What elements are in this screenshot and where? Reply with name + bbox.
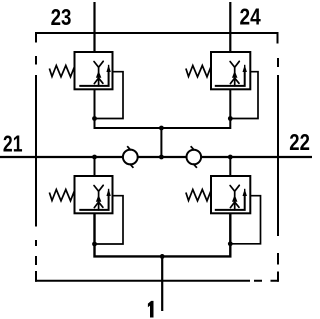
wire bottom-right valve inlet [229,157,231,186]
spring of valve V4 [186,190,211,201]
valve V1 internal pilot path with arrow [79,65,111,86]
wire port 24 line [229,2,231,62]
junction dot (V2 pilot tee) [228,116,233,121]
junction dot (V3 pilot tee) [92,242,97,247]
svg-text:24: 24 [240,4,261,30]
spring of valve V2 [186,66,211,77]
junction dot (22 line to V4) [228,155,233,160]
spring of valve V1 [49,66,74,77]
orifice O2 (right circle on 21-22 line) [187,146,202,168]
svg-text:22: 22 [289,129,310,155]
counterbalance valve V1 (top-left) body [75,52,113,89]
pilot line of valve V3 (bottom-left) [95,196,124,244]
wire port 21-22 main line [0,156,312,158]
wire bottom drain bus [95,213,231,256]
valve V4 internal pilot path with arrow [215,189,247,210]
wire mid drop to port line [160,128,162,157]
port 24 label [240,4,261,30]
counterbalance valve V3 (bottom-left) body [75,176,113,213]
spring of valve V3 [49,190,74,201]
junction dot (mid gallery on 21-22 line) [159,155,164,160]
junction dot (V1 pilot tee) [92,116,97,121]
orifice O1 (left circle on 21-22 line) [123,146,138,168]
wire bottom-left valve inlet [94,157,96,186]
port 22 label [289,129,310,155]
wire port 1 line [161,256,163,311]
valve V3 internal poppet [94,185,103,210]
svg-text:23: 23 [51,4,72,30]
valve V4 internal poppet [230,185,239,210]
junction dot (21 line to V3) [92,155,97,160]
port 1 label [148,301,154,318]
junction dot (V4 pilot tee) [228,241,233,246]
port 23 label [51,4,72,30]
junction dot (top bus mid tee) [159,126,164,131]
svg-text:21: 21 [3,130,23,156]
valve V2 internal pilot path with arrow [215,65,247,86]
pilot line of valve V2 (top-right) [230,72,258,119]
pilot line of valve V1 (top-left) [95,72,124,119]
port 21 label [3,130,23,156]
counterbalance valve V2 (top-right) body [211,52,250,89]
valve V1 internal poppet [94,61,103,86]
counterbalance valve V4 (bottom-right) body [211,176,250,213]
enclosure dash-dot boundary (manifold block outline) [35,33,279,282]
wire top drain bus [95,89,231,128]
valve V2 internal poppet [230,61,239,86]
pilot line of valve V4 (bottom-right) [230,196,260,244]
valve V3 internal pilot path with arrow [79,189,111,210]
wire port 23 line [93,2,95,62]
junction dot (port 1 tee on bottom bus) [160,254,165,259]
